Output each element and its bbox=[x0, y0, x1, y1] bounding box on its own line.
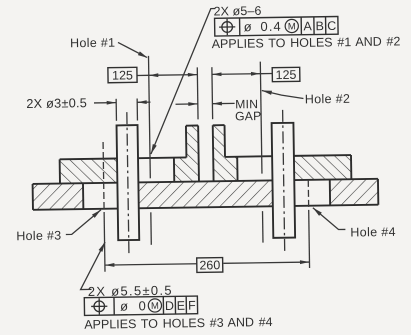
hole #3 centerline (hidden) bbox=[103, 142, 104, 214]
void1 right wall (base1 left edge) bbox=[173, 158, 175, 182]
svg-text:E: E bbox=[177, 299, 186, 313]
FCF2 MMC modifier bbox=[148, 299, 161, 312]
svg-text:A: A bbox=[303, 19, 312, 33]
dimension 125 right: line and arrows bbox=[212, 73, 260, 76]
dimension 260 basic box bbox=[197, 258, 223, 273]
hole #2 edge extension line lower bbox=[262, 211, 264, 242]
lower plate right end edge bbox=[377, 179, 379, 205]
stud S2 outline bbox=[212, 125, 215, 181]
stud S1 with base (hatched) bbox=[173, 125, 199, 181]
svg-text:D: D bbox=[165, 299, 174, 313]
base2 right edge bbox=[236, 157, 238, 181]
leader Hole #3 bbox=[65, 210, 101, 235]
leader Hole #1 bbox=[118, 42, 147, 58]
upper plates top edges bbox=[60, 158, 117, 161]
svg-text:Hole #1: Hole #1 bbox=[70, 36, 115, 51]
hole #2 edge extension line upper bbox=[260, 62, 262, 174]
leader Hole #2 bbox=[262, 90, 304, 99]
feature control frame FCF2 bbox=[84, 296, 197, 315]
svg-text:2X ø3±0.5: 2X ø3±0.5 bbox=[26, 95, 87, 111]
svg-text:ø 0.4: ø 0.4 bbox=[244, 19, 282, 35]
svg-text:Hole #3: Hole #3 bbox=[16, 229, 61, 244]
svg-text:F: F bbox=[188, 299, 196, 313]
svg-text:125: 125 bbox=[275, 68, 296, 82]
pin2 centerline bbox=[283, 110, 285, 254]
lower plate right segment (hatched) bbox=[330, 179, 379, 206]
svg-text:125: 125 bbox=[112, 68, 133, 82]
hole #4 right wall bbox=[329, 180, 331, 206]
svg-text:2X ø5–6: 2X ø5–6 bbox=[213, 4, 261, 19]
svg-text:C: C bbox=[327, 19, 336, 33]
stud S1 outline bbox=[185, 126, 187, 158]
plates interface edge bbox=[33, 179, 378, 184]
upper left plate (hatched) bbox=[60, 159, 118, 184]
dimension 2X diameter 3: arrows outside pin edges bbox=[94, 102, 116, 104]
dimension 125 left: line and arrows bbox=[137, 74, 149, 76]
svg-text:M: M bbox=[151, 301, 159, 312]
dimension 125 right: basic box bbox=[272, 67, 300, 81]
leader 2X dia 5.5 bbox=[80, 242, 106, 289]
hole #4 extension line for 260 dim bbox=[308, 211, 311, 268]
hole #3 left wall bbox=[82, 183, 84, 209]
hole #3 extension line for 260 dim bbox=[103, 214, 106, 272]
leader Hole #4 bbox=[313, 207, 346, 230]
dimension 125 left: basic box bbox=[108, 67, 137, 82]
lower plate bottom edge bbox=[33, 205, 378, 210]
svg-text:ø 0: ø 0 bbox=[120, 298, 147, 313]
pin1 left edge extension line bbox=[115, 99, 117, 121]
svg-text:APPLIES TO HOLES #3 AND #4: APPLIES TO HOLES #3 AND #4 bbox=[84, 315, 273, 332]
gap right face extension line bbox=[211, 67, 214, 119]
upper right plate right edge bbox=[350, 155, 352, 179]
svg-text:Hole #2: Hole #2 bbox=[305, 92, 351, 107]
upper right plate (hatched) bbox=[294, 155, 351, 180]
pin through holes #1/#3 bbox=[117, 125, 140, 240]
pin1 right edge extension line bbox=[136, 98, 138, 120]
FCF1 position symbol bbox=[222, 22, 233, 33]
svg-text:GAP: GAP bbox=[235, 109, 262, 123]
svg-text:B: B bbox=[316, 19, 325, 33]
FCF2 position symbol bbox=[94, 301, 105, 312]
pin1 centerline bbox=[127, 112, 129, 256]
leader from 2X dia 5-6 note to hole #1 bbox=[149, 9, 217, 154]
pin through holes #2/#4 bbox=[272, 123, 296, 238]
lower plate left end edge bbox=[32, 184, 34, 210]
upper left plate left edge bbox=[59, 159, 61, 183]
lower plate middle segment (hatched) bbox=[117, 180, 294, 209]
feature control frame FCF1 bbox=[215, 17, 339, 37]
hole #1 edge extension line upper bbox=[149, 56, 151, 178]
svg-text:Hole #4: Hole #4 bbox=[350, 225, 396, 240]
FCF1 MMC modifier bbox=[285, 19, 298, 32]
hole #1 edge extension line lower bbox=[150, 212, 152, 244]
svg-text:M: M bbox=[288, 21, 296, 32]
svg-text:260: 260 bbox=[199, 258, 220, 272]
svg-text:APPLIES TO HOLES #1 AND #2: APPLIES TO HOLES #1 AND #2 bbox=[212, 34, 401, 51]
MIN GAP dimension arrows bbox=[176, 103, 198, 105]
stud S2 with base (hatched) bbox=[213, 125, 238, 181]
hole #4 centerline (hidden) bbox=[307, 180, 309, 211]
gap left face extension line bbox=[196, 67, 199, 119]
dimension 260 line and arrows bbox=[105, 264, 198, 265]
lower plate left segment (hatched) bbox=[33, 183, 84, 210]
